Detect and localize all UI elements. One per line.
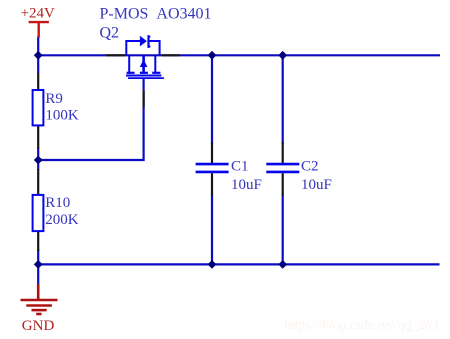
svg-text:+24V: +24V bbox=[21, 6, 55, 22]
svg-text:https://blog.csdn.net/qq_283: https://blog.csdn.net/qq_283 bbox=[284, 317, 439, 332]
svg-text:10uF: 10uF bbox=[301, 177, 332, 193]
svg-text:C1: C1 bbox=[231, 158, 249, 174]
svg-text:200K: 200K bbox=[45, 212, 78, 228]
svg-text:Q2: Q2 bbox=[100, 25, 120, 42]
svg-text:C2: C2 bbox=[301, 158, 319, 174]
svg-text:R9: R9 bbox=[45, 91, 63, 107]
svg-text:100K: 100K bbox=[45, 108, 79, 124]
svg-text:P-MOS AO3401: P-MOS AO3401 bbox=[100, 6, 212, 23]
svg-text:GND: GND bbox=[22, 318, 55, 334]
svg-text:R10: R10 bbox=[45, 195, 70, 211]
svg-text:10uF: 10uF bbox=[231, 177, 262, 193]
